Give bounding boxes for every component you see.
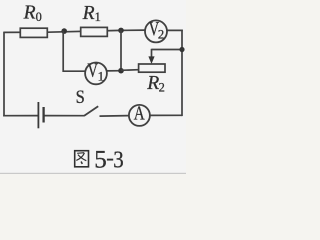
- svg-text:1: 1: [95, 10, 101, 24]
- wire V2 right lead: [167, 29, 183, 31]
- wire battery to switch: [44, 115, 84, 117]
- node junction after R0: [61, 28, 67, 34]
- svg-text:3: 3: [113, 146, 123, 173]
- wire bottom left: [3, 115, 38, 117]
- node junction wiper/right rail: [179, 47, 184, 52]
- switch S blade: [84, 106, 98, 116]
- rheostat R2: [139, 64, 165, 72]
- paper background: [0, 0, 186, 174]
- caption character tu (figure): [75, 151, 89, 167]
- svg-text:R: R: [82, 3, 95, 24]
- svg-text:R: R: [23, 3, 36, 24]
- rheostat wiper arrow: [151, 49, 153, 59]
- resistor R1: [81, 27, 108, 36]
- svg-text:S: S: [76, 86, 85, 108]
- svg-text:5: 5: [94, 147, 107, 174]
- svg-text:2: 2: [159, 81, 165, 95]
- node junction V1/R2: [118, 68, 124, 74]
- resistor R0: [20, 28, 47, 37]
- wire left rail: [3, 32, 5, 117]
- wire V1 left branch: [63, 31, 85, 71]
- svg-text:A: A: [134, 102, 145, 125]
- wire V1 right lead: [106, 70, 121, 72]
- voltmeter V2: [145, 20, 167, 42]
- wire switch to ammeter: [100, 115, 130, 118]
- wire top bus: [4, 30, 145, 32]
- wire node to R2: [121, 69, 139, 72]
- wire mid vertical branch: [120, 30, 122, 70]
- wire rheostat wiper feed: [152, 49, 183, 51]
- ammeter A: [129, 105, 150, 126]
- svg-text:1: 1: [98, 68, 105, 83]
- svg-text:2: 2: [158, 27, 164, 41]
- battery: [37, 102, 39, 128]
- wire ammeter to right corner: [150, 114, 183, 116]
- svg-text:R: R: [146, 73, 159, 94]
- node junction after R1: [118, 28, 124, 34]
- wire right rail: [181, 30, 183, 117]
- svg-text:0: 0: [36, 10, 42, 24]
- scan edge artifact bottom: [0, 173, 186, 174]
- voltmeter V1: [85, 63, 107, 85]
